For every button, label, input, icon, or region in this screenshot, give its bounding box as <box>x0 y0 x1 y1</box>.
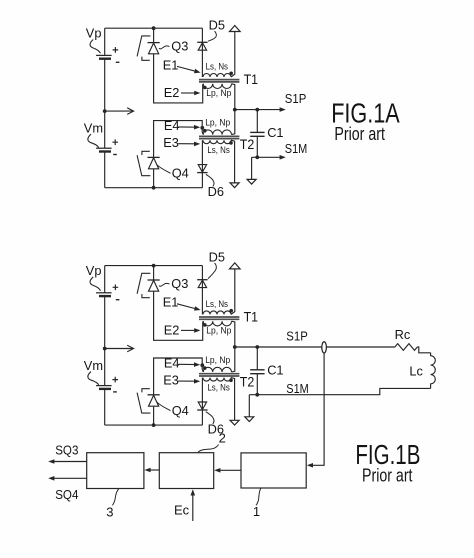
arrowhead into block 2 (FIG.1B) <box>214 468 220 473</box>
node C1 top junction (FIG.1B) <box>255 345 259 349</box>
label Vm (FIG.1B) <box>84 358 103 373</box>
node C1 bottom junction (FIG.1B) <box>255 393 259 397</box>
label E2 leader arrow (FIG.1A) <box>181 91 200 96</box>
wire T2 secondary right down (FIG.1B) <box>231 378 235 421</box>
wire Q4 to corner (FIG.1B) <box>154 358 204 395</box>
label E3 leader arrow (FIG.1A) <box>178 142 200 147</box>
node bottom-rail/Q4 junction (FIG.1B) <box>152 423 156 427</box>
label Q3 (FIG.1A) <box>171 39 188 54</box>
svg-text:Rc: Rc <box>395 327 411 342</box>
wire Q3 branch upper (FIG.1B) <box>153 266 155 280</box>
label E2 (FIG.1B) <box>164 323 180 338</box>
switch Q4 gate bracket (FIG.1A) <box>137 151 150 175</box>
arrowhead S1P (FIG.1A) <box>280 107 286 112</box>
label Vp (FIG.1A) <box>86 26 102 41</box>
wire left rail lower (FIG.1A) <box>104 152 106 188</box>
battery Vm (FIG.1A) long plate <box>96 147 112 149</box>
label Ls,Ns T1 (FIG.1B) <box>206 299 229 309</box>
label Lp,Np T1 (FIG.1A) <box>206 88 231 98</box>
node top-rail/Q3 junction (FIG.1B) <box>152 264 156 268</box>
label Lp,Np T2 (FIG.1B) <box>205 355 230 365</box>
svg-text:Q3: Q3 <box>171 39 188 54</box>
svg-text:E1: E1 <box>163 295 179 310</box>
wire Q3 to corner (FIG.1B) <box>154 291 204 340</box>
plus sign Vm (FIG.1A) <box>112 139 118 145</box>
svg-text:Ls, Ns: Ls, Ns <box>206 299 229 309</box>
svg-text:3: 3 <box>106 504 113 519</box>
wire top rail (FIG.1A) <box>105 27 203 29</box>
switch Q4 diode (FIG.1B) <box>148 395 160 406</box>
open arrowhead mid (FIG.1A) <box>127 108 133 115</box>
battery Vp (FIG.1A) long plate <box>96 54 112 56</box>
svg-text:T2: T2 <box>240 137 255 152</box>
svg-text:S1P: S1P <box>286 329 308 344</box>
label 3 (FIG.1B) <box>106 504 113 519</box>
label S1M (FIG.1A) <box>285 141 308 156</box>
wire T2 primary right up (FIG.1B) <box>232 347 235 372</box>
node T2 secondary polarity dot (FIG.1B) <box>229 379 233 383</box>
battery Vp (FIG.1B) leader squiggle <box>90 277 100 291</box>
winding Ls,Ns of T2 (FIG.1A) <box>203 140 231 144</box>
label E1 (FIG.1B) <box>163 295 179 310</box>
svg-text:C1: C1 <box>267 363 283 378</box>
label Q3 leader (FIG.1A) <box>159 46 170 49</box>
node bottom-rail/Q4 junction (FIG.1A) <box>152 186 156 190</box>
wire T1 primary right down (FIG.1B) <box>232 321 235 347</box>
svg-text:E4: E4 <box>164 118 180 133</box>
label C1 (FIG.1A) <box>267 125 283 140</box>
battery Vm (FIG.1B) short plate <box>99 388 111 390</box>
winding Ls,Ns of T2 (FIG.1B) <box>203 378 231 382</box>
wire D5 vertical (FIG.1A) <box>201 28 203 77</box>
node S1P junction (FIG.1A) <box>233 108 237 112</box>
label E1 (FIG.1A) <box>163 57 179 72</box>
arrowhead feedback into box 1 (FIG.1B) <box>307 463 313 468</box>
node C1 bottom junction (FIG.1A) <box>255 155 259 159</box>
wire Q4 to corner (FIG.1A) <box>154 121 204 158</box>
label S1P (FIG.1A) <box>285 91 307 106</box>
antenna arrow up (FIG.1A) <box>230 26 241 32</box>
label E3 leader arrow (FIG.1B) <box>178 379 200 384</box>
label S1P (FIG.1B) <box>286 329 308 344</box>
label E1 leader arrow (FIG.1B) <box>177 304 201 311</box>
label Prior art (FIG.1B) <box>362 466 413 486</box>
battery Vp (FIG.1B) long plate <box>96 292 112 294</box>
wire left rail lower (FIG.1B) <box>104 389 106 425</box>
svg-text:Lp, Np: Lp, Np <box>206 88 231 98</box>
battery Vp (FIG.1A) leader squiggle <box>90 40 100 54</box>
svg-text:Q3: Q3 <box>171 276 188 291</box>
node E4 junction dot (FIG.1B) <box>200 363 204 367</box>
minus sign Vm (FIG.1B) <box>113 391 117 393</box>
wire S1P (FIG.1A) <box>235 109 283 111</box>
wire S1P oval to Rc (FIG.1B) <box>326 346 395 348</box>
probe oval on S1P (FIG.1B) <box>322 342 327 353</box>
svg-text:Ls, Ns: Ls, Ns <box>206 61 229 71</box>
arrowhead S1M (FIG.1A) <box>280 155 286 160</box>
winding Ls,Ns of T1 (FIG.1A) <box>203 74 231 77</box>
wire SQ4 output (FIG.1B) <box>51 477 87 479</box>
svg-text:SQ4: SQ4 <box>55 487 78 502</box>
svg-text:E3: E3 <box>163 373 179 388</box>
label Prior art (FIG.1A) <box>334 124 385 144</box>
winding Lp,Np of T1 (FIG.1A) <box>203 84 231 89</box>
capacitor C1 plate 2 (FIG.1B) <box>250 373 264 375</box>
label Ec (FIG.1B) <box>174 503 190 518</box>
wire bottom rail (FIG.1A) <box>105 187 203 189</box>
wire T1 primary right down (FIG.1A) <box>232 84 235 110</box>
wire C1 ground drop (FIG.1A) <box>251 157 253 179</box>
svg-text:Lc: Lc <box>409 364 423 379</box>
winding Lp,Np of T2 (FIG.1A) <box>203 130 231 135</box>
label E2 (FIG.1A) <box>164 85 180 100</box>
label 1 leader (FIG.1B) <box>256 488 261 505</box>
wire D5 vertical (FIG.1B) <box>201 266 203 315</box>
svg-text:D5: D5 <box>209 18 225 33</box>
wire D6 vertical (FIG.1B) <box>201 378 203 426</box>
svg-text:C1: C1 <box>267 125 283 140</box>
label D6 (FIG.1A) <box>208 184 224 199</box>
label Q3 leader (FIG.1B) <box>159 283 170 286</box>
wire C1 ground drop (FIG.1B) <box>248 395 250 417</box>
wire C1 top (FIG.1B) <box>256 347 258 369</box>
label Q4 leader (FIG.1A) <box>157 165 171 174</box>
label E3 (FIG.1A) <box>163 135 179 150</box>
transformer T1 core bar 1 (FIG.1A) <box>199 79 239 81</box>
battery Vm (FIG.1B) long plate <box>96 385 112 387</box>
label E1 leader arrow (FIG.1A) <box>177 66 201 73</box>
wire C1 top (FIG.1A) <box>256 110 258 132</box>
arrowhead SQ3 (FIG.1B) <box>48 459 54 464</box>
svg-text:D6: D6 <box>208 184 224 199</box>
label Lp,Np T2 (FIG.1A) <box>205 118 230 128</box>
wire Ec input (FIG.1B) <box>192 492 194 521</box>
wire mid arrow shaft (FIG.1B) <box>105 348 133 350</box>
minus sign Vp (FIG.1B) <box>116 299 120 301</box>
battery Vp (FIG.1B) short plate <box>99 295 111 297</box>
label Lc (FIG.1B) <box>409 364 423 379</box>
winding Lp,Np of T1 (FIG.1B) <box>203 321 231 326</box>
svg-text:Ec: Ec <box>174 503 190 518</box>
label T1 (FIG.1B) <box>244 310 259 325</box>
node T2 primary polarity dot (FIG.1A) <box>203 129 207 133</box>
transformer T2 core bar 1 (FIG.1B) <box>199 373 239 375</box>
winding Ls,Ns of T1 (FIG.1B) <box>203 311 231 314</box>
svg-text:T2: T2 <box>240 374 255 389</box>
ground arrow C1 (FIG.1A) <box>247 179 256 184</box>
label D6 leader (FIG.1A) <box>206 174 214 186</box>
label Vp (FIG.1B) <box>86 263 102 278</box>
wire feedback from oval to box 1 (FIG.1B) <box>310 353 324 465</box>
wire C1 bottom (FIG.1A) <box>256 137 258 158</box>
arrowhead Ec into block 2 (FIG.1B) <box>191 489 196 495</box>
node mid-rail junction (FIG.1B) <box>103 347 107 351</box>
battery Vm (FIG.1B) leader squiggle <box>88 372 99 385</box>
svg-text:E3: E3 <box>163 135 179 150</box>
label FIG.1B <box>355 439 420 470</box>
svg-text:Vp: Vp <box>86 263 102 278</box>
wire top rail (FIG.1B) <box>105 265 203 267</box>
transformer T2 core bar 2 (FIG.1A) <box>199 138 239 140</box>
node T2 primary polarity dot (FIG.1B) <box>203 366 207 370</box>
label Rc (FIG.1B) <box>395 327 411 342</box>
svg-text:Ls, Ns: Ls, Ns <box>207 145 230 155</box>
battery Vm (FIG.1A) leader squiggle <box>88 134 99 147</box>
label Ls,Ns T2 (FIG.1A) <box>207 145 230 155</box>
ground arrow T2 (FIG.1B) <box>230 420 239 425</box>
arrowhead SQ4 (FIG.1B) <box>48 476 54 481</box>
svg-text:E2: E2 <box>164 85 180 100</box>
label E4 (FIG.1B) <box>164 356 180 371</box>
svg-text:E4: E4 <box>164 356 180 371</box>
svg-text:Prior art: Prior art <box>362 466 413 486</box>
label D6 (FIG.1B) <box>208 421 224 436</box>
transformer T1 core bar 1 (FIG.1B) <box>199 316 239 318</box>
wire bottom rail (FIG.1B) <box>105 424 203 426</box>
label SQ3 (FIG.1B) <box>55 442 78 457</box>
label T1 (FIG.1A) <box>244 72 259 87</box>
svg-text:1: 1 <box>253 504 260 519</box>
label C1 (FIG.1B) <box>267 363 283 378</box>
label 2 (FIG.1B) <box>219 431 226 446</box>
label 2 leader (FIG.1B) <box>198 445 219 453</box>
wire left rail middle (FIG.1B) <box>104 296 106 386</box>
block 2 (FIG.1B) <box>159 453 213 489</box>
wire Q3 branch upper (FIG.1A) <box>153 28 155 42</box>
wire left rail middle (FIG.1A) <box>104 59 106 149</box>
switch Q3 diode (FIG.1B) <box>148 280 160 291</box>
label Vm (FIG.1A) <box>84 121 103 136</box>
capacitor C1 plate 1 (FIG.1B) <box>250 369 264 371</box>
block 3 (FIG.1B) <box>87 453 144 489</box>
wire T2 primary right up (FIG.1A) <box>232 110 235 135</box>
battery Vp (FIG.1A) short plate <box>99 58 111 60</box>
node top-rail/Q3 junction (FIG.1A) <box>152 26 156 30</box>
label E2 leader arrow (FIG.1B) <box>181 328 200 333</box>
diode D6 (FIG.1B) <box>197 402 207 410</box>
wire Q4 branch lower (FIG.1A) <box>153 169 155 188</box>
node mid-rail junction (FIG.1A) <box>103 109 107 113</box>
wire T1 secondary right to top arrow (FIG.1A) <box>231 32 235 77</box>
wire S1P to oval (FIG.1B) <box>235 346 322 348</box>
node S1P junction (FIG.1B) <box>233 345 237 349</box>
svg-text:Q4: Q4 <box>172 166 189 181</box>
svg-text:T1: T1 <box>244 72 259 87</box>
label T2 (FIG.1B) <box>240 374 255 389</box>
wire T2 secondary right down (FIG.1A) <box>231 140 235 183</box>
wire SQ3 output (FIG.1B) <box>51 461 87 463</box>
wire Lc bottom return (FIG.1B) <box>249 388 430 394</box>
ground arrow C1 (FIG.1B) <box>245 417 254 422</box>
svg-text:2: 2 <box>219 431 226 446</box>
wire T1 secondary right to top arrow (FIG.1B) <box>231 269 235 314</box>
svg-text:Vm: Vm <box>84 358 103 373</box>
label D5 (FIG.1A) <box>209 18 225 33</box>
label D5 (FIG.1B) <box>209 249 225 264</box>
svg-text:S1P: S1P <box>285 91 307 106</box>
switch Q3 diode (FIG.1A) <box>148 43 160 54</box>
wire C1 bottom (FIG.1B) <box>256 374 258 395</box>
label D6 leader (FIG.1B) <box>206 412 214 424</box>
svg-text:Lp, Np: Lp, Np <box>205 355 230 365</box>
capacitor C1 plate 1 (FIG.1A) <box>250 131 264 133</box>
svg-text:Vp: Vp <box>86 26 102 41</box>
label S1M (FIG.1B) <box>286 381 309 396</box>
wire left rail upper (FIG.1B) <box>104 266 106 293</box>
label E4 leader arrow (FIG.1B) <box>178 362 200 367</box>
wire mid arrow shaft (FIG.1A) <box>105 110 133 112</box>
label Ls,Ns T1 (FIG.1A) <box>206 61 229 71</box>
label D5 leader (FIG.1B) <box>208 263 216 279</box>
plus sign Vm (FIG.1B) <box>112 377 118 383</box>
arrowhead into block 3 (FIG.1B) <box>144 468 150 473</box>
node T2 secondary polarity dot (FIG.1A) <box>229 141 233 145</box>
svg-text:D5: D5 <box>209 249 225 264</box>
node T1 secondary polarity dot (FIG.1B) <box>229 309 233 313</box>
transformer T1 core bar 2 (FIG.1B) <box>199 318 239 320</box>
diode D5 (FIG.1B) <box>197 280 207 288</box>
svg-text:Prior art: Prior art <box>334 124 385 144</box>
resistor Rc (FIG.1B) <box>395 344 417 351</box>
node E4 junction dot (FIG.1A) <box>200 126 204 130</box>
plus sign Vp (FIG.1A) <box>113 47 119 53</box>
minus sign Vp (FIG.1A) <box>116 61 120 63</box>
wire block1 to block2 (FIG.1B) <box>217 469 241 471</box>
transformer T1 core bar 2 (FIG.1A) <box>199 81 239 83</box>
wire block2 to block3 (FIG.1B) <box>147 469 159 471</box>
winding Lp,Np of T2 (FIG.1B) <box>203 367 231 372</box>
svg-text:S1M: S1M <box>285 141 308 156</box>
label Q4 (FIG.1A) <box>172 166 189 181</box>
open arrowhead mid (FIG.1B) <box>127 345 133 352</box>
wire Rc to Lc (FIG.1B) <box>417 347 430 353</box>
svg-text:Q4: Q4 <box>172 403 189 418</box>
label T2 (FIG.1A) <box>240 137 255 152</box>
label Q4 leader (FIG.1B) <box>157 402 171 411</box>
svg-text:Lp, Np: Lp, Np <box>205 118 230 128</box>
svg-text:SQ3: SQ3 <box>55 442 78 457</box>
wire D6 vertical (FIG.1A) <box>201 140 203 188</box>
node T1 secondary polarity dot (FIG.1A) <box>229 72 233 76</box>
block 1 (FIG.1B) <box>241 453 306 488</box>
node C1 top junction (FIG.1A) <box>255 108 259 112</box>
label SQ4 (FIG.1B) <box>55 487 78 502</box>
diode D6 (FIG.1A) <box>197 165 207 173</box>
label 1 (FIG.1B) <box>253 504 260 519</box>
svg-text:E1: E1 <box>163 57 179 72</box>
diode D5 (FIG.1A) <box>197 42 207 50</box>
antenna arrow up (FIG.1B) <box>230 263 241 269</box>
switch Q4 diode (FIG.1A) <box>148 157 160 168</box>
svg-text:Vm: Vm <box>84 121 103 136</box>
svg-text:Ls, Ns: Ls, Ns <box>207 382 230 392</box>
label D5 leader (FIG.1A) <box>208 31 216 41</box>
node T1 primary polarity dot (FIG.1A) <box>203 86 207 90</box>
label Q3 (FIG.1B) <box>171 276 188 291</box>
label E3 (FIG.1B) <box>163 373 179 388</box>
svg-text:Lp, Np: Lp, Np <box>206 325 231 335</box>
switch Q3 gate bracket (FIG.1B) <box>137 273 150 297</box>
wire Q3 to corner (FIG.1A) <box>154 54 204 103</box>
label Q4 (FIG.1B) <box>172 403 189 418</box>
svg-text:T1: T1 <box>244 310 259 325</box>
node T1 primary polarity dot (FIG.1B) <box>203 323 207 327</box>
wire left rail upper (FIG.1A) <box>104 28 106 55</box>
ground arrow T2 (FIG.1A) <box>230 183 239 188</box>
battery Vm (FIG.1A) short plate <box>99 150 111 152</box>
svg-text:S1M: S1M <box>286 381 309 396</box>
transformer T2 core bar 1 (FIG.1A) <box>199 135 239 137</box>
label Lp,Np T1 (FIG.1B) <box>206 325 231 335</box>
label FIG.1A <box>331 97 400 128</box>
label Ls,Ns T2 (FIG.1B) <box>207 382 230 392</box>
label 3 leader (FIG.1B) <box>112 489 118 505</box>
capacitor C1 plate 2 (FIG.1A) <box>250 135 264 137</box>
minus sign Vm (FIG.1A) <box>113 154 117 156</box>
label E4 (FIG.1A) <box>164 118 180 133</box>
switch Q4 gate bracket (FIG.1B) <box>137 389 150 413</box>
wire S1M (FIG.1A) <box>252 156 283 158</box>
inductor Lc (FIG.1B) <box>431 353 436 389</box>
label E4 leader arrow (FIG.1A) <box>178 125 200 130</box>
switch Q3 gate bracket (FIG.1A) <box>137 36 150 60</box>
svg-text:E2: E2 <box>164 323 180 338</box>
plus sign Vp (FIG.1B) <box>113 285 119 291</box>
wire Q4 branch lower (FIG.1B) <box>153 406 155 425</box>
transformer T2 core bar 2 (FIG.1B) <box>199 375 239 377</box>
